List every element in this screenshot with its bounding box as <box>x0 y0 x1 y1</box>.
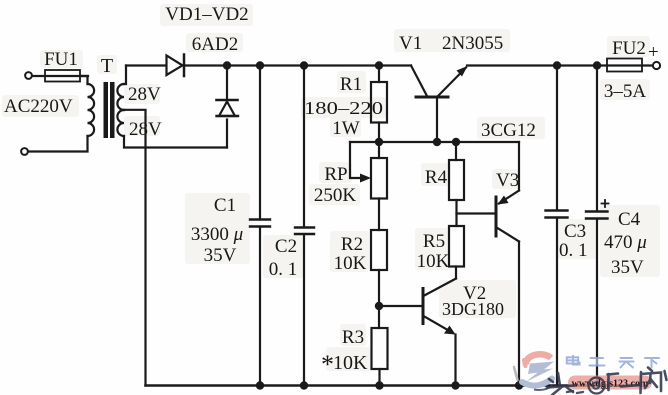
wire V3 base <box>457 212 495 214</box>
svg-text:3CG12: 3CG12 <box>481 120 536 141</box>
svg-text:250K: 250K <box>314 185 357 206</box>
node V2 base <box>375 302 383 310</box>
svg-text:C1: C1 <box>214 195 236 216</box>
svg-text:0. 1: 0. 1 <box>269 259 298 280</box>
svg-text:RP: RP <box>324 164 347 185</box>
wire V3 collector down <box>518 242 520 386</box>
diode VD2 <box>226 66 228 100</box>
capacitor C1 <box>259 66 261 220</box>
node R1 top <box>375 61 383 69</box>
node C3 top <box>553 61 561 69</box>
transformer secondary winding lower 28V <box>117 110 124 136</box>
node R3 bottom <box>375 381 383 389</box>
wire bottom rail <box>146 384 641 387</box>
watermark handwriting tiao marks <box>567 391 583 393</box>
watermark blue char gong <box>590 358 605 366</box>
svg-text:C4: C4 <box>618 209 641 230</box>
terminal input bottom <box>21 148 28 155</box>
node C4 top <box>593 61 601 69</box>
wire V3 emitter up <box>518 142 520 191</box>
svg-text:1W: 1W <box>332 118 360 139</box>
capacitor C3 <box>556 66 558 211</box>
watermark logo red arc <box>526 354 551 365</box>
wire RP wiper <box>350 142 362 178</box>
node VD2 top <box>223 61 231 69</box>
resistor R5 <box>449 226 464 267</box>
resistor R1 <box>378 66 380 83</box>
diode VD1 <box>167 56 183 76</box>
wire top rail to V1 collector <box>185 64 411 66</box>
svg-text:10K: 10K <box>334 253 367 274</box>
capacitor C4 <box>596 66 598 212</box>
svg-text:6AD2: 6AD2 <box>192 34 238 55</box>
transistor V1 <box>416 96 448 99</box>
svg-text:R2: R2 <box>341 234 363 255</box>
svg-text:+: + <box>648 42 659 63</box>
transformer T primary winding <box>88 84 95 136</box>
node V3 collector bottom <box>515 381 523 389</box>
watermark handwriting gong <box>621 385 639 387</box>
watermark red band <box>568 376 652 390</box>
wire centre tap <box>121 110 146 386</box>
wire top rail right <box>467 64 607 66</box>
transformer secondary winding upper 28V <box>117 84 124 110</box>
svg-text:180–220: 180–220 <box>304 98 383 118</box>
watermark blue char dian <box>567 356 580 365</box>
wire <box>33 75 89 77</box>
capacitor C4 plus sign <box>602 200 609 207</box>
svg-text:10K: 10K <box>417 251 450 272</box>
wire secondary bottom <box>124 136 227 148</box>
svg-text:FU2: FU2 <box>612 38 646 59</box>
capacitor C2 <box>303 66 305 228</box>
transistor V3 <box>495 197 498 236</box>
watermark handwriting tou <box>547 373 575 395</box>
svg-text:T: T <box>101 55 113 77</box>
watermark logo blue zigzag <box>526 362 554 383</box>
watermark blue char tian <box>620 358 634 368</box>
potentiometer RP <box>378 142 380 158</box>
transistor V2 <box>422 289 425 324</box>
watermark logo blue swoosh <box>522 379 552 386</box>
node R1 bottom <box>375 138 383 146</box>
svg-text:FU1: FU1 <box>44 49 78 70</box>
svg-text:3300 μ: 3300 μ <box>191 224 243 245</box>
terminal input top <box>25 72 32 79</box>
node C1 bottom <box>256 381 264 389</box>
svg-text:C2: C2 <box>275 236 297 257</box>
node V2 emitter bottom <box>451 381 459 389</box>
watermark handwriting at-sign <box>589 378 605 394</box>
watermark blue char xia <box>645 358 659 368</box>
svg-text:3DG180: 3DG180 <box>442 299 504 319</box>
resistor R2 <box>371 230 387 270</box>
svg-text:V1: V1 <box>399 33 422 54</box>
node C2 bottom <box>300 381 308 389</box>
svg-text:28V: 28V <box>129 119 162 140</box>
fuse FU1 <box>45 70 80 82</box>
svg-text:AC220V: AC220V <box>4 96 73 117</box>
svg-text:470 μ: 470 μ <box>604 232 647 253</box>
watermark logo navy underline <box>534 386 553 391</box>
svg-text:R5: R5 <box>423 231 445 252</box>
resistor R3 <box>372 328 388 369</box>
wire secondary top to rail <box>124 66 126 85</box>
svg-text:VD1–VD2: VD1–VD2 <box>165 4 248 25</box>
watermark handwriting nei <box>641 368 667 394</box>
node C1 top <box>256 61 264 69</box>
watermark gray stroke artifact <box>514 367 518 380</box>
wire <box>80 76 88 84</box>
node R4 top <box>452 138 460 146</box>
wire top rail left <box>126 64 166 66</box>
svg-text:R1: R1 <box>340 74 362 95</box>
fuse FU2 <box>607 59 642 72</box>
svg-text:35V: 35V <box>204 245 237 266</box>
svg-text:2N3055: 2N3055 <box>442 33 503 54</box>
svg-text:R4: R4 <box>425 167 448 188</box>
wire mid horizontal <box>350 141 519 143</box>
node C2 top <box>300 61 308 69</box>
node V1 base <box>433 138 441 146</box>
svg-text:0. 1: 0. 1 <box>559 240 588 261</box>
terminal output plus <box>653 62 660 69</box>
svg-text:3–5A: 3–5A <box>604 81 647 102</box>
resistor R4 <box>455 142 457 160</box>
svg-text:R3: R3 <box>342 327 364 348</box>
transformer core <box>104 82 115 138</box>
wire <box>28 136 88 152</box>
svg-text:35V: 35V <box>611 257 644 278</box>
svg-text:C3: C3 <box>564 221 586 242</box>
watermark handwriting dian <box>608 374 619 391</box>
svg-text:28V: 28V <box>128 84 161 105</box>
svg-text:V3: V3 <box>496 170 519 191</box>
svg-text:10K: 10K <box>333 352 368 374</box>
